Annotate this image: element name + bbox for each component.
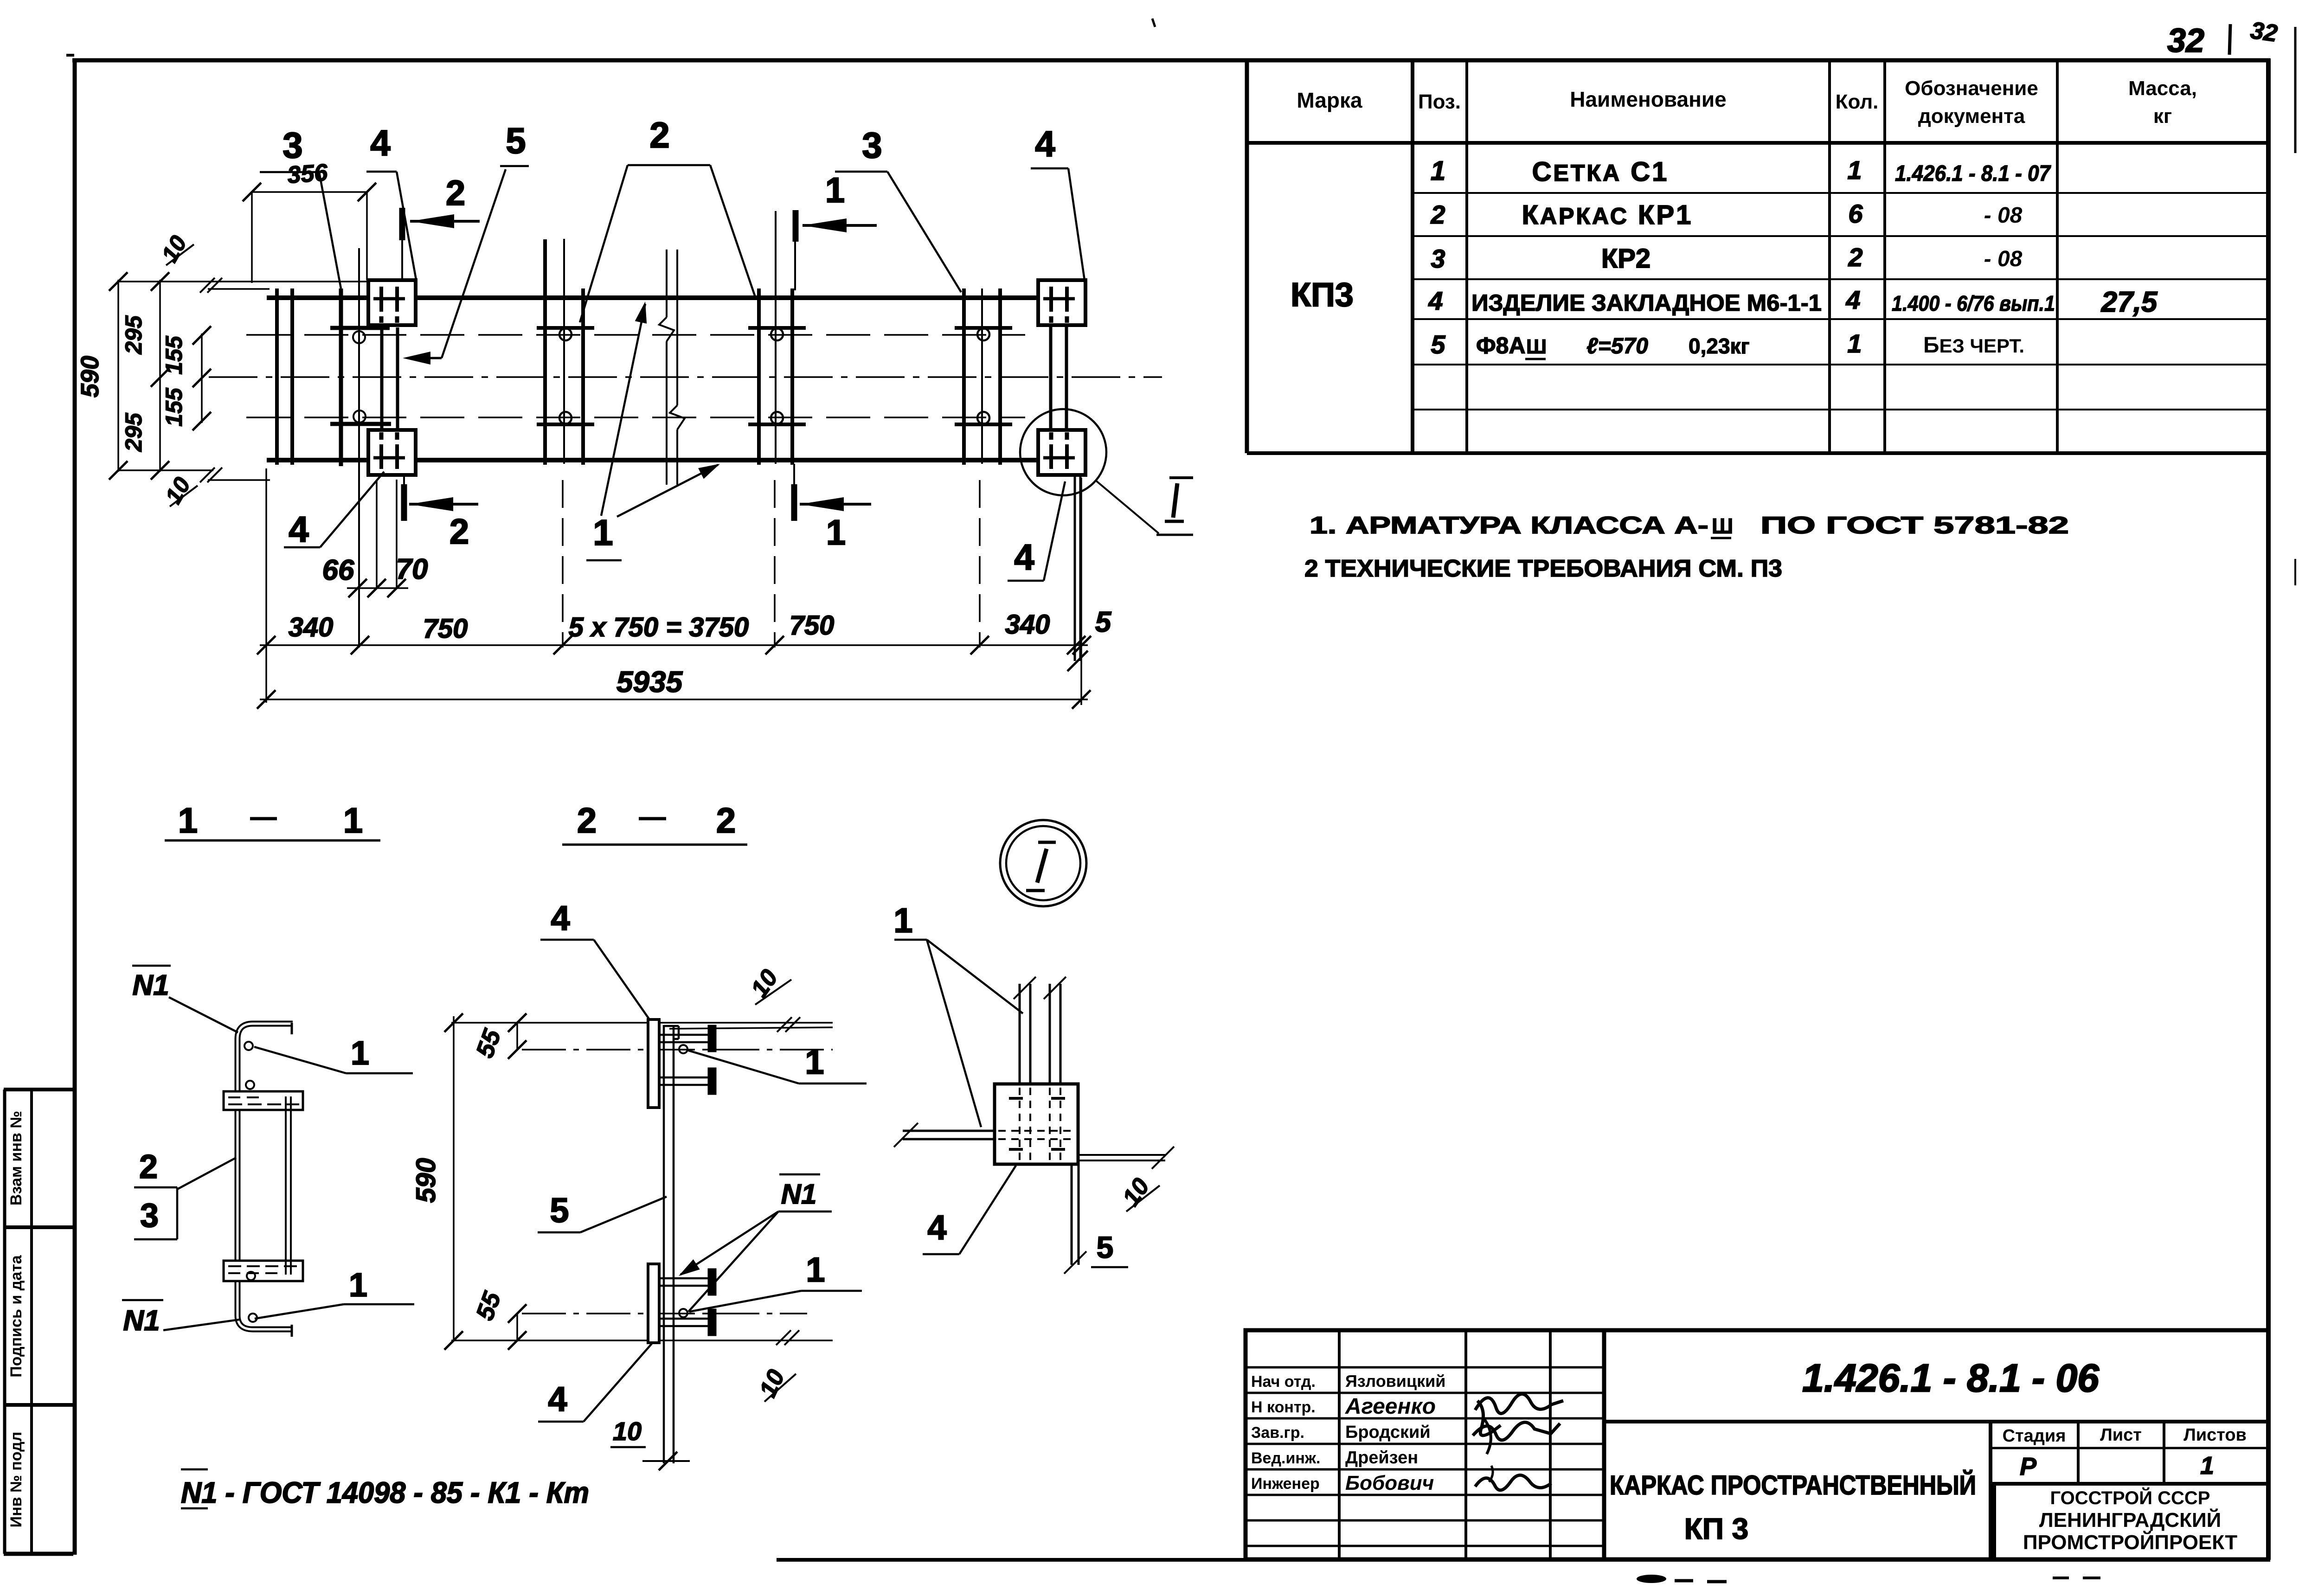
svg-text:КП 3: КП 3	[1684, 1512, 1748, 1545]
svg-text:2: 2	[649, 115, 669, 155]
svg-text:2: 2	[1848, 243, 1862, 272]
label 4 top section2	[540, 899, 649, 1019]
centerline axis	[209, 376, 1162, 378]
svg-text:Агеенко: Агеенко	[1345, 1394, 1436, 1419]
break mark lines	[666, 250, 668, 317]
detail bar down with dim 5	[1064, 1164, 1128, 1274]
svg-text:750: 750	[423, 614, 468, 644]
svg-text:340: 340	[289, 612, 334, 642]
svg-text:Ф8А: Ф8А	[1476, 333, 1526, 359]
embed plate edge-on lower	[648, 1264, 659, 1343]
scan artifact top-left dash	[66, 54, 74, 57]
mesh edge line bottom	[208, 479, 270, 481]
svg-text:1: 1	[2200, 1452, 2214, 1480]
axis stud1 dashdot	[522, 1049, 833, 1051]
svg-text:590: 590	[411, 1158, 441, 1203]
svg-text:Взам инв №: Взам инв №	[7, 1111, 25, 1205]
svg-text:Р: Р	[2020, 1453, 2037, 1481]
organization	[2023, 1487, 2237, 1554]
callout 4 bottom-left	[284, 472, 384, 550]
label N1 top section1	[132, 966, 238, 1032]
stirrup station 4	[955, 288, 1012, 465]
section 1-1 title	[165, 801, 380, 840]
svg-text:2: 2	[1430, 200, 1445, 229]
detail label 4	[923, 1166, 1016, 1254]
dim chain 340 750 3750 750 340	[257, 606, 1112, 654]
label N1 bottom section1	[122, 1300, 239, 1337]
svg-text:2: 2	[446, 173, 465, 213]
svg-text:1.400 - 6/76 вып.1: 1.400 - 6/76 вып.1	[1892, 291, 2055, 315]
top chord wire	[267, 295, 368, 300]
svg-text:5935: 5935	[616, 665, 683, 699]
svg-text:Зав.гр.: Зав.гр.	[1251, 1424, 1304, 1442]
svg-text:ℓ=570: ℓ=570	[1586, 334, 1648, 359]
svg-text:Язловицкий: Язловицкий	[1345, 1372, 1445, 1391]
callout 1 mesh	[586, 300, 723, 560]
svg-text:5: 5	[1095, 606, 1112, 638]
names	[1345, 1372, 1445, 1494]
svg-text:295: 295	[121, 412, 147, 452]
svg-text:2 ТЕХНИЧЕСКИЕ ТРЕБОВАНИЯ СМ.: 2 ТЕХНИЧЕСКИЕ ТРЕБОВАНИЯ СМ. П3	[1304, 555, 1782, 582]
callout 2	[580, 115, 755, 322]
svg-text:ПО ГОСТ 5781-82: ПО ГОСТ 5781-82	[1760, 512, 2069, 539]
weld circle upper left	[353, 331, 365, 343]
svg-text:Инженер: Инженер	[1251, 1475, 1320, 1493]
embed plate M6-1-1 top-right	[1038, 280, 1085, 325]
dim 590	[76, 272, 128, 480]
anchor stud 4	[659, 1310, 715, 1335]
anchor stud 3	[659, 1269, 715, 1295]
section mark 2 bottom	[404, 473, 478, 551]
label 2 over 3 section1	[134, 1148, 236, 1239]
label 4 bottom section2	[538, 1344, 652, 1422]
bottom chord wire	[267, 458, 368, 462]
title block signature grid	[1246, 1330, 1604, 1559]
svg-text:4: 4	[551, 899, 570, 937]
svg-text:ИЗДЕЛИЕ ЗАКЛАДНОЕ М6-1-1: ИЗДЕЛИЕ ЗАКЛАДНОЕ М6-1-1	[1471, 290, 1822, 316]
svg-text:ЛЕНИНГРАДСКИЙ: ЛЕНИНГРАДСКИЙ	[2039, 1508, 2221, 1532]
svg-text:5: 5	[1097, 1230, 1114, 1264]
dim 10 bottom-right section2	[754, 1330, 799, 1402]
weld circle bottom section2	[679, 1309, 687, 1317]
mesh edge line top	[208, 288, 270, 290]
svg-text:1: 1	[593, 512, 613, 553]
embed plate M6-1-1 top-left	[368, 280, 416, 325]
svg-text:Обозначение: Обозначение	[1905, 77, 2038, 100]
svg-text:Подпись и дата: Подпись и дата	[7, 1255, 25, 1378]
weld circles section 1-1	[244, 1042, 253, 1050]
svg-text:4: 4	[370, 122, 390, 163]
weld bar lower left	[330, 422, 391, 426]
svg-text:- 08: - 08	[1984, 247, 2023, 271]
label N1 section2	[675, 1174, 832, 1312]
svg-text:1: 1	[826, 513, 846, 552]
svg-text:590: 590	[76, 356, 104, 397]
svg-text:4: 4	[1014, 537, 1034, 577]
svg-text:27,5: 27,5	[2101, 286, 2158, 318]
svg-text:2: 2	[450, 512, 469, 551]
dim 55 top section2	[471, 1013, 527, 1061]
bar 5 top hook	[664, 1026, 679, 1039]
svg-text:10: 10	[613, 1417, 642, 1446]
svg-text:Инв № подл: Инв № подл	[7, 1432, 25, 1528]
dim 10 bottom section2	[610, 1417, 690, 1470]
dim 10 top-right section2	[746, 965, 800, 1032]
centerline lower mesh wire	[246, 417, 1025, 418]
label 1 top-right section1	[254, 1035, 413, 1073]
dim 10 bottom	[160, 468, 222, 508]
svg-text:1: 1	[1431, 156, 1445, 186]
detail bars up	[1014, 977, 1066, 1084]
svg-text:1: 1	[178, 801, 198, 840]
detail label 1	[893, 901, 1023, 1127]
separator stroke	[2229, 24, 2230, 55]
svg-text:Вед.инж.: Вед.инж.	[1251, 1449, 1320, 1467]
dim 155+155	[161, 326, 211, 430]
svg-text:ГОССТРОЙ СССР: ГОССТРОЙ СССР	[2050, 1487, 2210, 1508]
scan artifact top-center dash	[1152, 19, 1155, 27]
bar position 5 hanging end	[1074, 475, 1076, 661]
svg-text:N1 - ГОСТ 14098 - 85 - К1 - К: N1 - ГОСТ 14098 - 85 - К1 - Кт	[181, 1476, 589, 1509]
scan artifact right edge	[2294, 27, 2297, 153]
svg-text:1: 1	[343, 801, 363, 840]
break zigzag lower	[670, 405, 685, 429]
svg-text:2: 2	[577, 801, 597, 840]
svg-text:ПРОМСТРОЙПРОЕКТ: ПРОМСТРОЙПРОЕКТ	[2023, 1530, 2237, 1554]
embed plate M6-1-1 bottom-left	[368, 430, 416, 475]
weld circle lower left	[353, 410, 366, 423]
svg-text:N1: N1	[123, 1305, 160, 1337]
svg-text:Масса,: Масса,	[2128, 77, 2197, 100]
extension line bottom 590	[118, 469, 213, 471]
detail I label circle	[1000, 820, 1086, 906]
signatures scribbles	[1473, 1394, 1563, 1490]
detail I reference label	[1165, 478, 1193, 521]
break zigzag upper	[659, 317, 674, 341]
stirrup station 3	[748, 211, 806, 465]
svg-text:4: 4	[1845, 285, 1860, 314]
callout 4 bottom-right	[1008, 481, 1065, 581]
hatched plate upper	[224, 1091, 303, 1110]
svg-text:32: 32	[2249, 17, 2279, 47]
spec table grid	[1247, 60, 2268, 453]
svg-text:Поз.: Поз.	[1418, 90, 1461, 113]
callout 4 right	[1031, 123, 1085, 280]
weld circle top section2	[679, 1045, 687, 1053]
svg-text:1: 1	[1847, 155, 1862, 185]
svg-text:1: 1	[893, 901, 912, 940]
svg-text:БЕЗ ЧЕРТ.: БЕЗ ЧЕРТ.	[1923, 333, 2024, 358]
svg-text:- 08: - 08	[1984, 203, 2023, 228]
svg-text:66: 66	[322, 554, 354, 586]
svg-text:1: 1	[1847, 329, 1862, 358]
section 2-2 title	[562, 801, 747, 845]
anchor stud 2	[659, 1069, 715, 1094]
svg-text:Бобович: Бобович	[1345, 1472, 1434, 1494]
svg-text:4: 4	[289, 509, 308, 550]
bar position 5 pair	[1049, 325, 1053, 430]
svg-text:5 x 750 = 3750: 5 x 750 = 3750	[569, 612, 749, 642]
svg-text:340: 340	[1005, 609, 1050, 640]
svg-text:Ш: Ш	[1712, 514, 1733, 538]
svg-text:Ш: Ш	[1526, 335, 1547, 358]
callout 5	[403, 120, 529, 365]
svg-text:5: 5	[1431, 330, 1445, 359]
svg-text:1: 1	[806, 1250, 825, 1289]
role labels	[1251, 1373, 1320, 1493]
svg-text:Марка: Марка	[1297, 88, 1362, 112]
svg-text:295: 295	[121, 315, 147, 355]
svg-text:Кол.: Кол.	[1836, 90, 1879, 113]
embed plate edge-on upper	[648, 1019, 659, 1108]
extension line top 590	[118, 281, 367, 282]
stirrup station 2	[537, 239, 594, 465]
label 5 section2	[538, 1191, 667, 1232]
extension bottom section2	[451, 1340, 833, 1341]
svg-text:6: 6	[1848, 199, 1863, 228]
section 1-1 mesh wire channel	[238, 1023, 293, 1337]
svg-text:документа: документа	[1918, 105, 2025, 128]
extension top section2	[451, 1022, 833, 1024]
svg-text:4: 4	[927, 1208, 946, 1247]
svg-text:кг: кг	[2153, 105, 2172, 128]
callout 3 left	[260, 125, 341, 288]
hatched plate lower	[224, 1261, 303, 1281]
svg-text:5: 5	[506, 120, 526, 161]
svg-text:3: 3	[862, 125, 882, 166]
centerline upper mesh wire	[246, 334, 1025, 336]
embed plate M6-1-1 bottom-right	[1038, 430, 1085, 475]
dim 55 bottom section2	[471, 1288, 527, 1350]
svg-text:3: 3	[283, 125, 302, 166]
svg-text:4: 4	[548, 1380, 567, 1418]
svg-text:Листов: Листов	[2183, 1425, 2247, 1445]
scan artifact bottom dashes	[1637, 1575, 1666, 1583]
anchor bar between plates	[285, 1096, 287, 1275]
label 1 top-right section2	[687, 1043, 867, 1083]
weld bar upper left	[330, 326, 390, 330]
svg-text:750: 750	[790, 610, 835, 641]
sidebar frame boxes	[4, 1090, 73, 1554]
svg-text:1.426.1 - 8.1 - 06: 1.426.1 - 8.1 - 06	[1802, 1356, 2100, 1400]
svg-text:Лист: Лист	[2100, 1425, 2142, 1445]
svg-text:Наименование: Наименование	[1570, 87, 1726, 111]
dim 5935	[257, 665, 1091, 709]
svg-text:1: 1	[825, 171, 845, 210]
svg-text:Н контр.: Н контр.	[1251, 1398, 1316, 1416]
svg-text:1.426.1 - 8.1 - 07: 1.426.1 - 8.1 - 07	[1895, 161, 2051, 186]
svg-text:1: 1	[805, 1043, 824, 1081]
svg-text:N1: N1	[781, 1179, 817, 1210]
svg-text:32: 32	[2167, 22, 2204, 59]
svg-text:КАРКАС КР1: КАРКАС КР1	[1522, 200, 1693, 230]
detail bar left	[894, 1123, 995, 1147]
svg-text:КАРКАС ПРОСТРАНСТВЕННЫЙ: КАРКАС ПРОСТРАНСТВЕННЫЙ	[1610, 1470, 1976, 1500]
title block right part	[1604, 1330, 2268, 1559]
stirrup wires at embed plate column	[339, 288, 343, 466]
section mark 2 top	[402, 173, 480, 280]
svg-text:2: 2	[139, 1148, 158, 1186]
detail I leader	[1095, 480, 1159, 533]
detail plate	[995, 1084, 1078, 1164]
svg-text:N1: N1	[132, 969, 169, 1001]
svg-text:4: 4	[1428, 286, 1443, 315]
dim 295+295	[121, 272, 169, 480]
bar 5 pair between left plates	[380, 327, 384, 430]
axis stud4 dashdot	[522, 1313, 807, 1314]
svg-text:4: 4	[1035, 123, 1055, 164]
bar 5 vertical	[663, 1025, 665, 1463]
anchor stud 1	[659, 1026, 715, 1051]
detail hidden anchors dashed	[998, 1088, 1074, 1160]
dim 66 and 70	[322, 553, 428, 597]
svg-text:3: 3	[140, 1197, 159, 1234]
label 1 bottom-right section1	[255, 1267, 414, 1319]
svg-text:1: 1	[351, 1035, 369, 1072]
svg-text:Бродский: Бродский	[1345, 1423, 1431, 1442]
svg-text:КР2: КР2	[1601, 244, 1650, 274]
svg-text:3: 3	[1431, 244, 1445, 273]
callout 4 left	[366, 122, 416, 280]
svg-text:СЕТКА С1: СЕТКА С1	[1532, 157, 1669, 187]
svg-text:1: 1	[349, 1267, 367, 1304]
dim 10 top	[156, 231, 222, 293]
svg-text:КП3: КП3	[1291, 276, 1354, 314]
detail I circle on plan	[1020, 409, 1106, 495]
svg-text:Стадия: Стадия	[2003, 1426, 2066, 1446]
svg-text:155: 155	[161, 387, 187, 427]
svg-text:155: 155	[161, 335, 187, 375]
label 1 bottom-right section2	[689, 1250, 862, 1312]
dim 356	[243, 159, 376, 283]
detail bar right with dim 10	[1078, 1147, 1174, 1211]
section mark 1 bottom	[794, 464, 871, 552]
svg-text:5: 5	[550, 1191, 569, 1230]
extension lines below plan	[265, 468, 267, 703]
callout 3 right	[835, 125, 961, 292]
svg-text:Дрейзен: Дрейзен	[1345, 1448, 1418, 1468]
svg-text:Нач отд.: Нач отд.	[1251, 1373, 1316, 1391]
svg-text:2: 2	[716, 801, 736, 840]
svg-text:1. АРМАТУРА КЛАССА А-: 1. АРМАТУРА КЛАССА А-	[1310, 512, 1708, 539]
mesh end wires left	[275, 288, 279, 465]
section mark 1 top	[795, 171, 877, 290]
svg-text:0,23кг: 0,23кг	[1689, 334, 1750, 358]
dim 590 section2	[411, 1013, 463, 1350]
svg-text:70: 70	[396, 553, 428, 585]
stage headers	[2003, 1425, 2247, 1446]
